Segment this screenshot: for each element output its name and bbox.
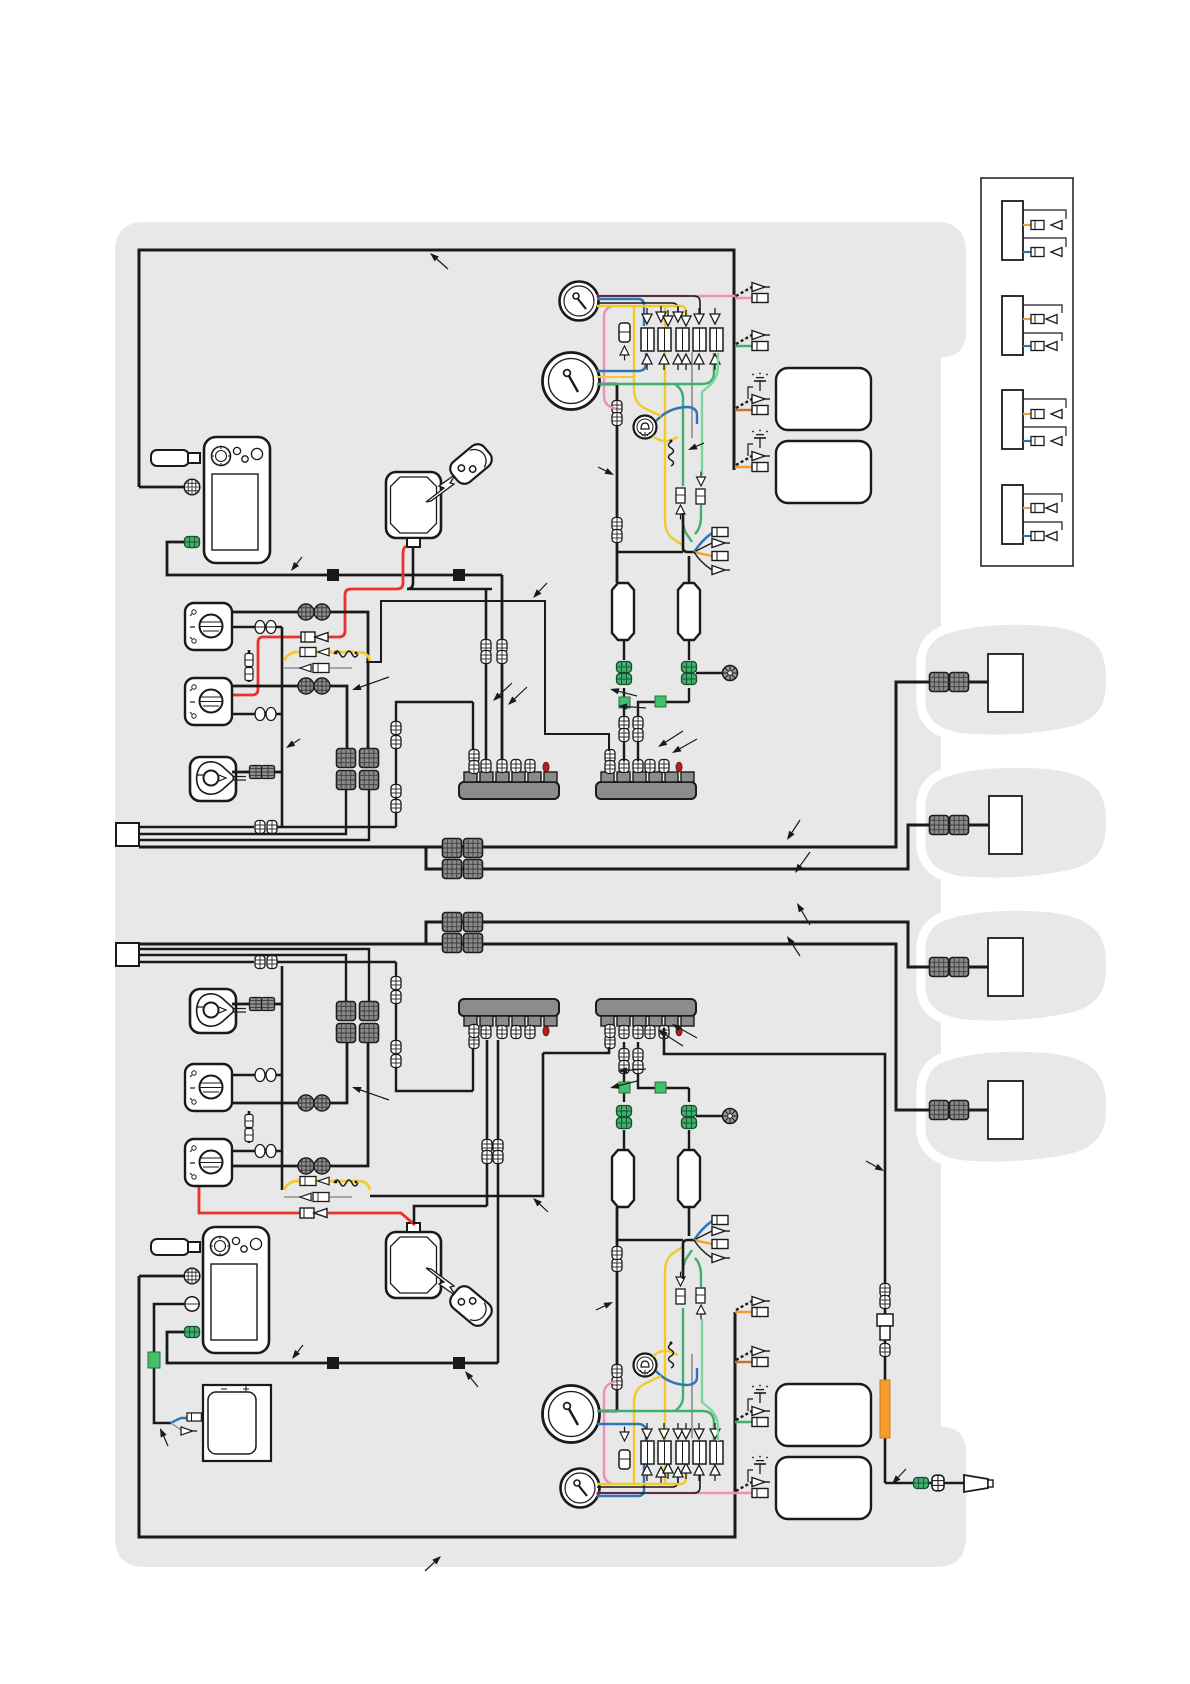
horn yellow wire (bottom) bbox=[653, 1351, 678, 1356]
key switch C accessory bullets (bottom) bbox=[255, 1145, 276, 1158]
trailer white connector (bottom) bbox=[932, 1475, 944, 1491]
yellow branch wires (bottom) bbox=[634, 1246, 684, 1484]
pinwheel connector (top) bbox=[723, 666, 738, 681]
annotation arrow: bottom boundary bbox=[425, 1556, 441, 1571]
splice A (top) bbox=[327, 569, 339, 581]
lanyard switch connectors (top) bbox=[250, 766, 275, 779]
trailer green connector (bottom) bbox=[914, 1478, 929, 1489]
wire remote to boundary (bottom) bbox=[139, 1275, 184, 1278]
trim gauge (bottom) bbox=[561, 1469, 600, 1508]
annotation arrow: bus 4 right bbox=[797, 903, 810, 925]
gauge harness pink wire (top) bbox=[596, 296, 735, 409]
remote harness connector (bottom) bbox=[184, 1268, 200, 1284]
yellow branch wires (top) bbox=[634, 306, 684, 546]
annotation arrow: strip 2 leads bottom b bbox=[672, 1024, 697, 1038]
annotation arrow: splice B bottom bbox=[465, 1371, 478, 1387]
red lead fuse holder (top) bbox=[301, 632, 328, 642]
annotation arrow: bus 1 right bbox=[787, 820, 800, 840]
green merge wire (top) bbox=[683, 505, 701, 542]
remote control bottom: body bbox=[203, 1227, 269, 1353]
battery switch connector block (top) bbox=[337, 749, 379, 790]
annotation arrow: kill squiggle top bbox=[688, 443, 704, 450]
key switch 2 feed wire (top) bbox=[232, 686, 347, 748]
tachometer gauge (top) bbox=[543, 353, 600, 410]
annotation arrow: link wire top bbox=[533, 583, 547, 598]
accessory breakout brown with ground (top) bbox=[735, 373, 770, 415]
ignition module (bottom) bbox=[386, 1223, 441, 1298]
tank 1 connector stack (bottom) bbox=[617, 1096, 632, 1150]
legend connector group 4 bbox=[1002, 485, 1062, 544]
tachometer harness lead (bottom) bbox=[598, 1207, 617, 1411]
annotation arrow: trailer wire bottom bbox=[892, 1469, 906, 1484]
oil tank 1 (top) bbox=[612, 583, 634, 640]
gauge sender lead wires (top) bbox=[597, 296, 700, 438]
engine blob 1 bbox=[921, 620, 1111, 739]
relay box 2 (top) bbox=[776, 441, 871, 503]
bus splitter blocks (bottom) bbox=[443, 913, 483, 953]
splice B (bottom) bbox=[453, 1357, 465, 1369]
terminal strip 1 (top) bbox=[459, 772, 559, 799]
lanyard stop switch (bottom) bbox=[190, 989, 246, 1033]
accessory breakout orange with ground (top) bbox=[735, 430, 770, 472]
lightning bolt (top) bbox=[426, 471, 462, 502]
strip link jumper (top) bbox=[366, 601, 609, 751]
warning horn breakout green (top) bbox=[735, 331, 770, 351]
horn blue wire (top) bbox=[656, 407, 697, 424]
harness bus wire to engine 2 bbox=[426, 825, 989, 869]
annotation arrow: tank 1 stack top bbox=[610, 688, 637, 696]
module lead connectors (top) bbox=[481, 640, 507, 664]
key switch 2 bullet pair (top) bbox=[298, 678, 330, 694]
gauge harness blue wire (bottom) bbox=[597, 1464, 644, 1496]
legend connector group 1 bbox=[1002, 201, 1066, 260]
annotation arrow: strip 2 leads bottom a bbox=[658, 1030, 683, 1046]
splice A (bottom) bbox=[327, 1357, 339, 1369]
bus splitter blocks (top) bbox=[443, 839, 483, 879]
key switch 1 feed wire (top) bbox=[232, 612, 368, 748]
diode pair left (top) bbox=[676, 488, 685, 519]
relay box 1 (top) bbox=[776, 368, 871, 430]
key switch B-C link wire (bottom) bbox=[248, 1111, 251, 1143]
tank 1 lead to strip (top) bbox=[623, 694, 625, 761]
annotation arrow: accessory vertical top bbox=[286, 739, 300, 748]
warning horn breakout green with ground (bottom) bbox=[735, 1385, 770, 1427]
tachometer green feed (top) bbox=[597, 353, 714, 486]
key switch B (bottom) bbox=[185, 1064, 232, 1111]
start jumper yellow fuse link (bottom) bbox=[284, 1177, 370, 1202]
green drop wire (top) bbox=[702, 353, 718, 475]
trailer connector wire (bottom) bbox=[885, 1482, 964, 1485]
trim gauge (top) bbox=[560, 282, 599, 321]
battery box (bottom) bbox=[203, 1385, 271, 1461]
relay box 2 (bottom) bbox=[776, 1457, 871, 1519]
tachometer green feed (bottom) bbox=[597, 1308, 714, 1441]
remote ground lead (top) bbox=[167, 542, 502, 761]
remote control top: body bbox=[204, 437, 270, 563]
remote green connector (top) bbox=[185, 537, 200, 548]
ignition module (top) bbox=[386, 472, 441, 547]
fuse bank (bottom) bbox=[641, 1423, 723, 1483]
terminal strip 2 connectors (top) bbox=[605, 750, 682, 774]
annotation arrow: switch bullet pair bottom bbox=[352, 1087, 389, 1100]
module output leads (bottom) bbox=[414, 1040, 498, 1363]
annotation arrow: tach lead top bbox=[598, 467, 614, 475]
diode pair right (bottom) bbox=[696, 1288, 706, 1319]
strip feed wire right (bottom) bbox=[664, 1028, 885, 1483]
detached plug (top) bbox=[447, 441, 496, 488]
annotation arrow: module lead B top bbox=[508, 687, 527, 705]
lanyard switch connectors (bottom) bbox=[250, 998, 275, 1011]
annotation arrow: jumper wire bottom bbox=[533, 1198, 548, 1212]
remote aux connector (bottom) bbox=[185, 1297, 199, 1311]
start jumper yellow fuse link (top) bbox=[284, 648, 370, 673]
pinwheel connector (bottom) bbox=[723, 1109, 738, 1124]
fuse holder tower (bottom) bbox=[877, 1314, 893, 1357]
fuse bank (top) bbox=[641, 306, 723, 370]
engine 1 terminal box bbox=[988, 654, 1023, 712]
lightning bolt (bottom) bbox=[426, 1268, 462, 1299]
engine 2 terminal box bbox=[989, 796, 1022, 854]
oil harness junction (bottom) bbox=[617, 1207, 694, 1279]
diode pair left (bottom) bbox=[676, 1272, 685, 1304]
tank 1 splice (bottom) bbox=[619, 1082, 630, 1093]
annotation arrow: top boundary bbox=[430, 253, 448, 269]
key switch C bullet pair (bottom) bbox=[298, 1158, 330, 1174]
remote harness connector (top) bbox=[184, 479, 200, 495]
tank 2 splice (bottom) bbox=[655, 1082, 666, 1093]
remote aux lead with splice (bottom) bbox=[154, 1304, 184, 1423]
key switch B accessory bullets (bottom) bbox=[255, 1069, 276, 1082]
terminal strip 1 connectors (bottom) bbox=[469, 1025, 549, 1049]
engine 3 connector pair bbox=[930, 958, 969, 977]
tank 2 connector stack (bottom) bbox=[682, 1088, 697, 1150]
terminal strip 2 (top) bbox=[596, 772, 696, 799]
annotation arrow: aux lead bottom bbox=[160, 1428, 168, 1446]
key switch 1 (top) bbox=[185, 603, 232, 650]
annotation arrow: tach lead bottom bbox=[596, 1302, 613, 1310]
kill squiggle wire (bottom) bbox=[669, 1342, 674, 1369]
engine 4 connector pair bbox=[930, 1101, 969, 1120]
tank 1 lead connectors (bottom) bbox=[619, 1049, 629, 1074]
tachometer blue feed (top) bbox=[597, 353, 646, 371]
key switch C accessory wire (bottom) bbox=[232, 966, 282, 1190]
lanyard stop switch (top) bbox=[190, 757, 246, 801]
tachometer harness lead (top) bbox=[598, 384, 617, 583]
remote control top: key bbox=[151, 450, 200, 466]
key switch 1 accessory wire (top) bbox=[232, 627, 282, 827]
green splice (bottom) bbox=[148, 1352, 160, 1368]
module battery lead red (top) bbox=[232, 546, 406, 695]
tank 2 lead to strip (bottom) bbox=[638, 1042, 689, 1088]
engine 1 connector pair bbox=[930, 673, 969, 692]
oil tank 1 (bottom) bbox=[612, 1150, 634, 1207]
accessory pigtail blue (bottom) bbox=[171, 1413, 201, 1423]
horn blue wire (bottom) bbox=[656, 1368, 697, 1385]
annotation arrow: module lead A top bbox=[493, 683, 512, 701]
legend box bbox=[981, 178, 1073, 566]
key switch 2 accessory wire (top) bbox=[232, 713, 282, 716]
tank 2 lead connectors (bottom) bbox=[633, 1049, 643, 1074]
tank 1 connector stack (top) bbox=[617, 640, 632, 694]
yellow drop wire (top) bbox=[634, 390, 661, 416]
trim/tilt breakout pink (top) bbox=[735, 283, 770, 303]
right feed connectors (bottom) bbox=[880, 1284, 890, 1309]
jumper to strip wire (bottom) bbox=[370, 1053, 543, 1196]
key switch B accessory wire (bottom) bbox=[232, 1074, 282, 1077]
key switch 1-2 link wire (top) bbox=[248, 650, 251, 682]
trim/tilt breakout pink with ground (bottom) bbox=[735, 1456, 770, 1498]
key switch 1 accessory bullets (top) bbox=[255, 621, 276, 634]
tag wire A connectors (top) bbox=[391, 722, 401, 813]
annotation arrow: bus 3 right bbox=[787, 936, 800, 956]
key switch B feed wire (bottom) bbox=[232, 1042, 347, 1103]
remote ground lead (bottom) bbox=[167, 1332, 498, 1363]
accessory breakout brown (bottom) bbox=[735, 1347, 770, 1367]
remote control bottom: key bbox=[151, 1239, 200, 1255]
tachometer lead connectors (top) bbox=[612, 401, 622, 543]
annotation arrow: switch bullet pair top bbox=[352, 677, 389, 690]
annotation arrow: bus 2 right bbox=[795, 852, 810, 873]
annotation arrow: feed wire bottom bbox=[866, 1161, 884, 1171]
tag wire A bullets (bottom) bbox=[255, 956, 277, 969]
relay box 1 (bottom) bbox=[776, 1384, 871, 1446]
fan breakout (top) bbox=[694, 528, 730, 575]
harness bus wire to engine 3 bbox=[426, 922, 989, 967]
lanyard switch wire (bottom) bbox=[232, 1003, 282, 1006]
detached plug (bottom) bbox=[447, 1283, 496, 1330]
tag wire A (top) bbox=[139, 702, 473, 827]
harness tag (top) bbox=[116, 823, 139, 846]
harness boundary wire bottom bbox=[139, 1276, 735, 1537]
tank 1 lead connectors (top) bbox=[619, 717, 629, 742]
tank 2 connector stack (top) bbox=[682, 640, 697, 702]
gauge harness blue wire (top) bbox=[597, 299, 644, 326]
tank 2 lead connectors (top) bbox=[633, 717, 643, 742]
warning horn (bottom) bbox=[634, 1354, 657, 1377]
tank 1 lead to strip (bottom) bbox=[623, 1042, 625, 1096]
tag wire B (top) bbox=[139, 790, 346, 834]
horn yellow wire (top) bbox=[653, 436, 678, 441]
inline fuse small (bottom) bbox=[619, 1427, 630, 1469]
key switch C (bottom) bbox=[185, 1139, 232, 1186]
tag wire A bullets (top) bbox=[255, 821, 277, 834]
engine blob 3 bbox=[921, 906, 1111, 1025]
tag wire C (bottom) bbox=[139, 949, 369, 1001]
annotation arrow: tank splice bottom bbox=[618, 1067, 646, 1073]
trailer plug (bottom) bbox=[964, 1475, 993, 1492]
key switch 2 (top) bbox=[185, 678, 232, 725]
terminal strip 2 (bottom) bbox=[596, 999, 696, 1026]
warning horn (top) bbox=[634, 416, 657, 439]
terminal strip 1 connectors (top) bbox=[469, 750, 549, 774]
oil harness junction (top) bbox=[617, 513, 694, 583]
tachometer lead connectors (bottom) bbox=[612, 1247, 622, 1390]
key switch B bullet pair (bottom) bbox=[298, 1095, 330, 1111]
gauge sender lead wires (bottom) bbox=[597, 1354, 700, 1493]
key switch 2 accessory bullets (top) bbox=[255, 708, 276, 721]
annotation arrow: tank 1 stack bottom bbox=[610, 1081, 637, 1089]
gauge harness pink wire (bottom) bbox=[596, 1381, 735, 1493]
battery switch connector block (bottom) bbox=[337, 1002, 379, 1043]
legend connector group 2 bbox=[1002, 296, 1062, 355]
link wire bullets (top) bbox=[245, 654, 253, 681]
module battery lead red (bottom) bbox=[199, 1186, 415, 1225]
harness bus wire to engine 1 bbox=[139, 682, 988, 847]
tank 2 lead to strip (top) bbox=[638, 702, 689, 761]
tachometer blue feed (bottom) bbox=[597, 1424, 646, 1441]
legend connector group 3 bbox=[1002, 390, 1066, 449]
terminal strip 1 (bottom) bbox=[459, 999, 559, 1026]
remote green connector (bottom) bbox=[185, 1327, 200, 1338]
link wire bullets (bottom) bbox=[245, 1115, 253, 1142]
engine blob 2 bbox=[921, 763, 1111, 882]
oil tank 2 (bottom) bbox=[678, 1150, 700, 1207]
engine 4 terminal box bbox=[988, 1081, 1023, 1139]
annotation arrow: ground lead top bbox=[291, 557, 302, 571]
tag wire C (top) bbox=[139, 790, 369, 840]
green drop wire (bottom) bbox=[702, 1319, 718, 1441]
terminal strip 2 connectors (bottom) bbox=[605, 1025, 682, 1049]
tachometer yellow feed (top) bbox=[597, 376, 634, 378]
key switch C feed wire (bottom) bbox=[232, 1042, 368, 1166]
pinwheel connector wire (top) bbox=[696, 672, 722, 674]
orange fuse link (bottom) bbox=[880, 1380, 890, 1438]
tag wire A (bottom) bbox=[139, 962, 473, 1091]
green merge wire (bottom) bbox=[683, 1250, 701, 1287]
yellow drop wire (bottom) bbox=[634, 1376, 661, 1402]
tank 2 splice (top) bbox=[655, 696, 666, 707]
splice B (top) bbox=[453, 569, 465, 581]
annotation arrow: ground lead bottom bbox=[292, 1345, 303, 1359]
wire remote to boundary (top) bbox=[139, 486, 184, 489]
tank 1 splice (top) bbox=[619, 697, 630, 708]
pinwheel connector wire (bottom) bbox=[696, 1115, 722, 1117]
module output leads (top) bbox=[407, 547, 492, 761]
annotation arrow: strip 2 leads top b bbox=[672, 739, 697, 753]
accessory pigtail gray (bottom) bbox=[171, 1423, 197, 1435]
gauge harness yellow wire (top) bbox=[597, 306, 686, 326]
engine 3 terminal box bbox=[988, 938, 1023, 996]
fan breakout (bottom) bbox=[694, 1216, 730, 1263]
oil tank 2 (top) bbox=[678, 583, 700, 640]
red lead fuse holder (bottom) bbox=[300, 1208, 327, 1218]
tag wire B (bottom) bbox=[139, 955, 346, 1001]
kill squiggle wire (top) bbox=[669, 440, 674, 467]
inline fuse small (top) bbox=[619, 323, 630, 360]
tag wire A connectors (bottom) bbox=[391, 977, 401, 1068]
gray rigging panel bbox=[115, 222, 966, 1567]
module lead connectors (bottom) bbox=[482, 1140, 503, 1164]
annotation arrow: strip 2 leads top a bbox=[658, 731, 683, 747]
engine 2 connector pair bbox=[930, 816, 969, 835]
diode pair right (top) bbox=[696, 472, 706, 504]
strip link jumper (bottom) bbox=[543, 1047, 609, 1053]
tachometer gauge (bottom) bbox=[543, 1386, 600, 1443]
lanyard switch wire (top) bbox=[232, 771, 282, 774]
gauge harness yellow wire (bottom) bbox=[597, 1464, 686, 1484]
key switch 1 bullet pair (top) bbox=[298, 604, 330, 620]
engine blob 4 bbox=[921, 1047, 1111, 1166]
annotation arrow: tank splice top bbox=[618, 703, 646, 709]
accessory breakout orange with ground (bottom) bbox=[735, 1297, 770, 1317]
harness boundary wire top bbox=[139, 250, 734, 487]
harness tag (bottom) bbox=[116, 943, 139, 966]
harness bus wire to engine 4 bbox=[139, 944, 988, 1110]
